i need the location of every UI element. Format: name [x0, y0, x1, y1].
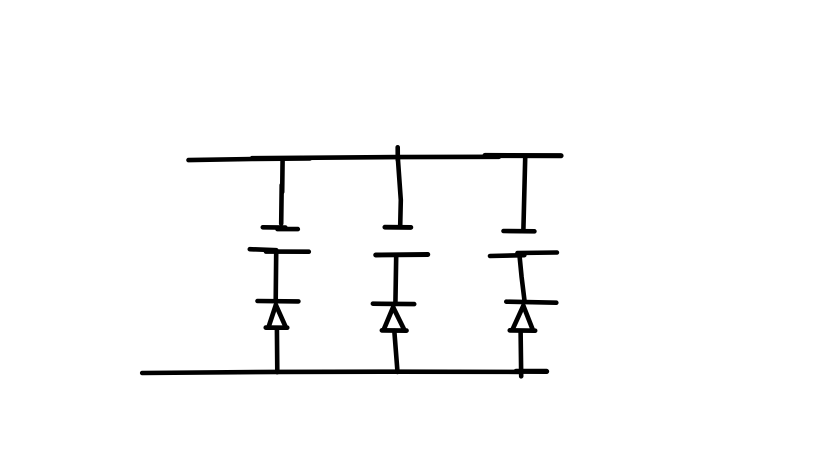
- top rail wire (net V+): [189, 156, 562, 161]
- capacitor C3: [490, 231, 557, 256]
- wire from top rail to capacitor C3: [523, 158, 525, 230]
- wire C2 to diode D2: [393, 256, 398, 304]
- diode D1: [258, 301, 299, 328]
- wire from top rail to capacitor C2: [398, 159, 401, 226]
- wire D2 to bottom rail: [394, 331, 397, 372]
- wire C1 to diode D1: [273, 253, 278, 302]
- bottom rail wire (net GND): [142, 371, 546, 373]
- wire stub above top rail at branch 2 junction: [395, 147, 400, 160]
- wire from top rail to capacitor C1: [281, 159, 282, 224]
- wire D3 to bottom rail: [518, 331, 523, 377]
- diode D2: [373, 304, 414, 331]
- wire D1 to bottom rail: [275, 328, 280, 372]
- capacitor C1: [250, 227, 309, 251]
- capacitor C2: [376, 227, 428, 255]
- wire C3 to diode D3: [520, 257, 525, 300]
- diode D3: [506, 302, 556, 331]
